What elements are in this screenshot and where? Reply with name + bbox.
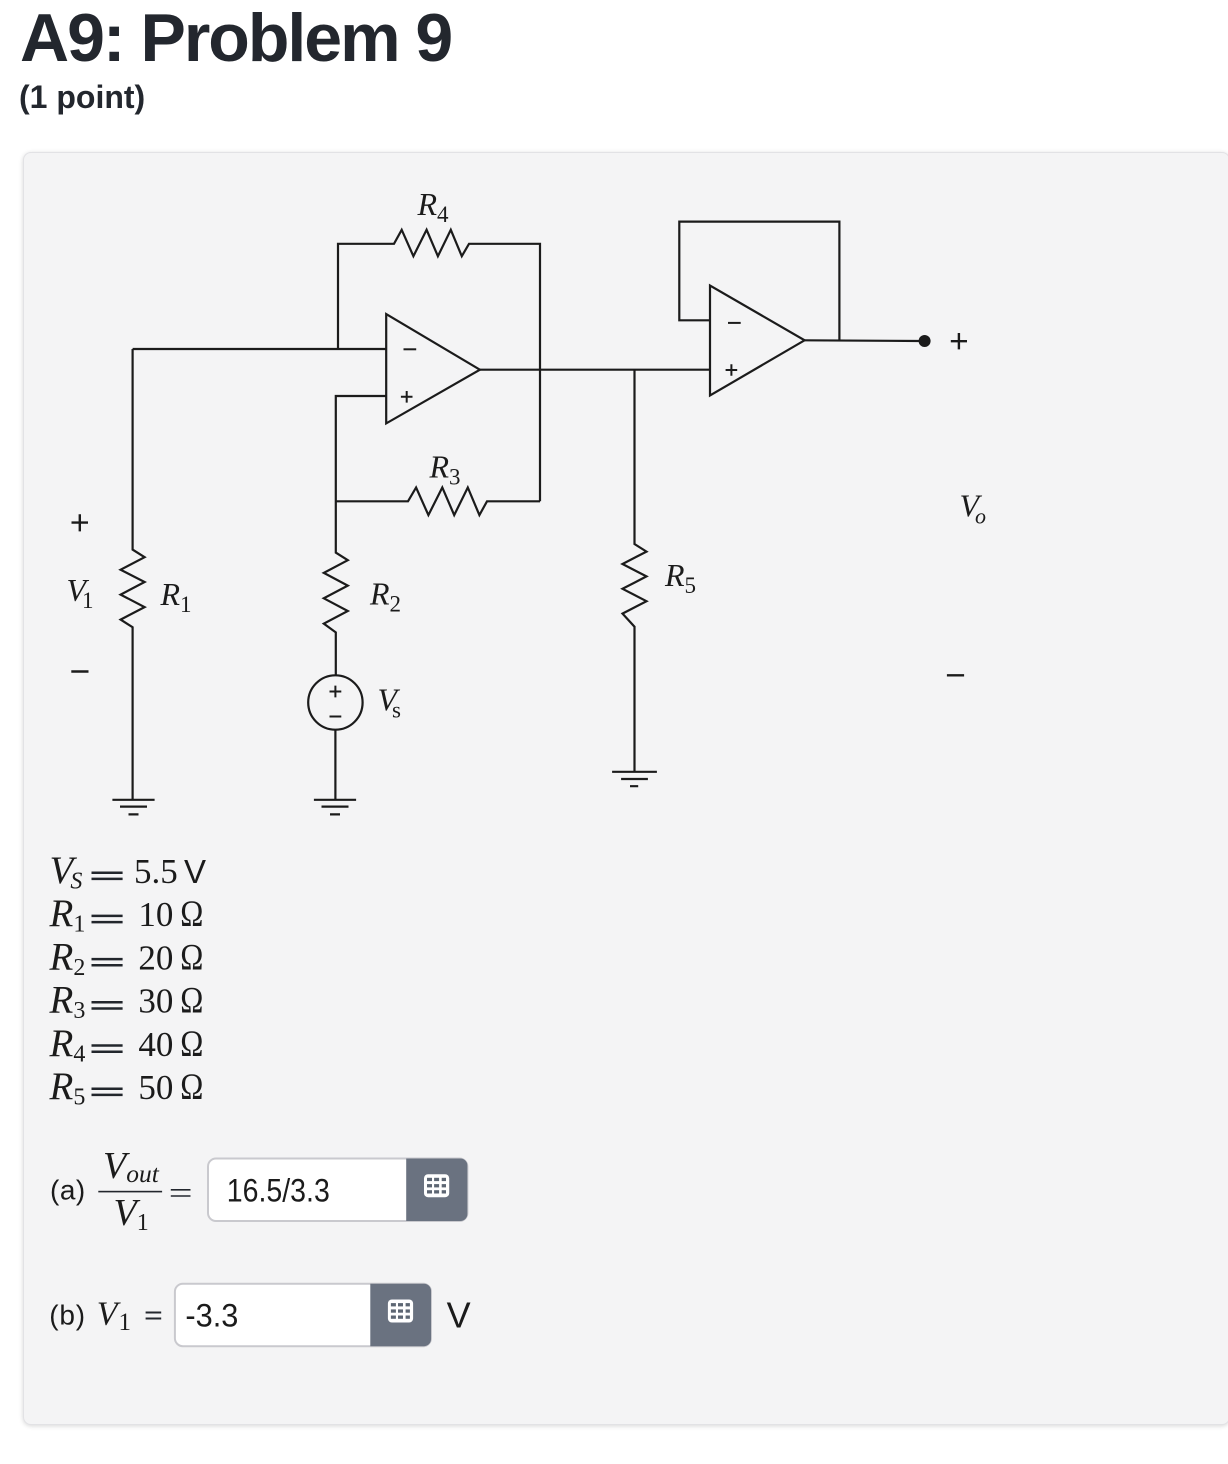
svg-text:R1: R1 [49,892,86,938]
svg-text:V1: V1 [67,572,94,613]
svg-text:10: 10 [138,895,173,934]
svg-text:R1: R1 [160,576,192,617]
svg-text:5.5: 5.5 [134,852,178,891]
svg-text:Ω: Ω [180,938,203,978]
svg-text:R5: R5 [664,557,696,598]
svg-text:Vo: Vo [960,488,987,529]
svg-text:Ω: Ω [180,895,203,935]
svg-text:30: 30 [138,982,173,1021]
svg-text:R3: R3 [49,979,86,1025]
svg-text:R3: R3 [429,449,461,490]
svg-text:40: 40 [138,1025,173,1064]
svg-text:V1: V1 [114,1192,149,1236]
svg-text:Vout: Vout [103,1145,160,1188]
svg-text:R4: R4 [417,186,450,227]
svg-text:V: V [184,853,206,890]
svg-text:R2: R2 [369,576,401,617]
svg-text:16.5/3.3: 16.5/3.3 [227,1172,330,1208]
svg-text:50: 50 [138,1068,173,1107]
svg-text:R4: R4 [49,1022,86,1068]
svg-text:Ω: Ω [180,1024,203,1064]
svg-text:(b): (b) [49,1300,86,1331]
svg-text:V: V [447,1295,471,1336]
svg-text:R2: R2 [49,935,86,981]
svg-text:-3.3: -3.3 [185,1298,238,1334]
svg-text:V1: V1 [97,1296,131,1337]
svg-text:(a): (a) [50,1175,86,1206]
svg-text:Ω: Ω [180,981,203,1021]
svg-text:Vs: Vs [378,682,402,723]
svg-text:20: 20 [138,938,173,977]
svg-text:Ω: Ω [180,1068,203,1108]
svg-text:VS: VS [50,849,83,895]
svg-text:R5: R5 [49,1065,86,1111]
